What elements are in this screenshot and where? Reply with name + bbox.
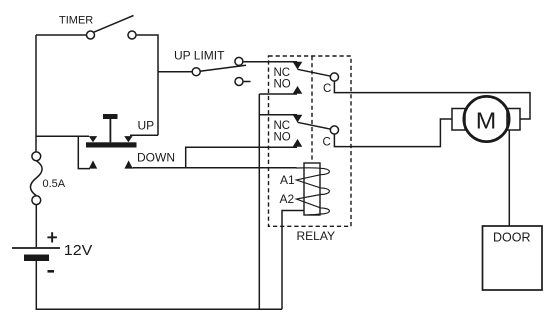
wire fuse to battery positive [35,205,37,248]
motor left brush [452,109,465,131]
svg-text:A1: A1 [280,173,295,187]
svg-text:NC: NC [274,120,291,132]
svg-text:UP LIMIT: UP LIMIT [174,49,225,63]
svg-text:NC: NC [274,67,291,79]
pushbutton UP left fixed contact triangle [89,136,97,142]
wire motor to door [508,130,510,226]
wire riser DOWN to relay NO2 [186,147,297,168]
relay NC2 fixed contact triangle [293,115,303,123]
relay mechanical linkage dashed line [311,56,313,163]
pushbutton DOWN left fixed contact triangle [89,160,97,168]
pushbutton actuator stem [110,119,112,142]
relay coil helix winding [296,168,329,215]
switch UP LIMIT common contact circle [235,57,243,65]
wire NC2 branch [259,114,297,116]
relay contact blade pole 2 [298,122,331,129]
wire C1 to motor right brush [334,81,530,119]
wire NO1 branch [259,93,297,95]
wire UP LIMIT NO stub [243,81,250,83]
switch UP LIMIT blade (closed to upper contact) [198,65,246,71]
relay contact blade pole 1 [298,69,331,76]
battery minus label bar [48,270,55,273]
svg-text:RELAY: RELAY [297,229,335,243]
pushbutton DOWN right fixed contact triangle [124,160,132,168]
relay NO1 fixed contact triangle [293,86,303,94]
wire DOWN contact to relay coil A1 [133,167,297,169]
fuse F1 top terminal circle [32,152,41,161]
svg-text:C: C [323,136,331,148]
svg-text:A2: A2 [280,192,295,206]
relay common C1 circle [330,73,338,81]
switch UP LIMIT left contact circle [192,68,200,76]
wire from TIMER to node UP riser [136,35,158,135]
pushbutton UP right fixed contact triangle [124,136,132,142]
wire coil A2 to bottom rail [282,211,304,310]
wire feed branch to UP/DOWN button [36,135,89,137]
wire UP LIMIT branch [158,71,192,73]
svg-text:NO: NO [274,131,291,143]
switch TIMER left contact circle [87,31,95,39]
wire UP riser to UP button right contact [130,134,158,136]
svg-text:NO: NO [274,79,291,91]
fuse F1 body S-curve [30,161,42,196]
wire UP LIMIT to relay NC1 [243,61,297,63]
battery BT1 negative plate [24,255,49,262]
svg-text:M: M [476,107,497,133]
wire bracket feed to DOWN left contact [78,136,90,168]
wire battery negative to bottom rail [36,261,282,309]
fuse F1 bottom terminal circle [32,196,41,205]
relay NO2 fixed contact triangle [293,139,303,147]
motor right brush [507,109,520,131]
pushbutton UP-DOWN actuator cap [103,114,118,119]
svg-text:0.5A: 0.5A [43,178,66,190]
wire top rail from left rail to TIMER switch [36,34,86,36]
svg-text:UP: UP [138,119,155,133]
relay common C2 circle [330,126,338,134]
box DOOR [483,226,543,290]
switch UP LIMIT unused NO contact circle [235,78,243,86]
battery BT1 positive plate [12,247,60,249]
switch TIMER right contact circle [128,31,136,39]
relay enclosure dashed box [269,56,352,226]
motor M1 circle [464,96,509,141]
relay coil body rectangle [304,163,320,215]
pushbutton bridge bar [86,142,137,147]
wire C2 to motor left brush [334,119,452,147]
svg-text:12V: 12V [64,242,93,259]
svg-text:DOOR: DOOR [493,231,531,245]
svg-text:DOWN: DOWN [137,151,175,165]
switch TIMER blade (open) [94,16,134,33]
svg-text:C: C [323,83,331,95]
svg-text:TIMER: TIMER [59,14,93,26]
wire left rail from top to fuse [35,35,37,152]
relay NC1 fixed contact triangle [293,62,303,70]
wire rail NO1-NC2 to bottom rail [258,94,260,309]
battery plus label [47,236,57,238]
